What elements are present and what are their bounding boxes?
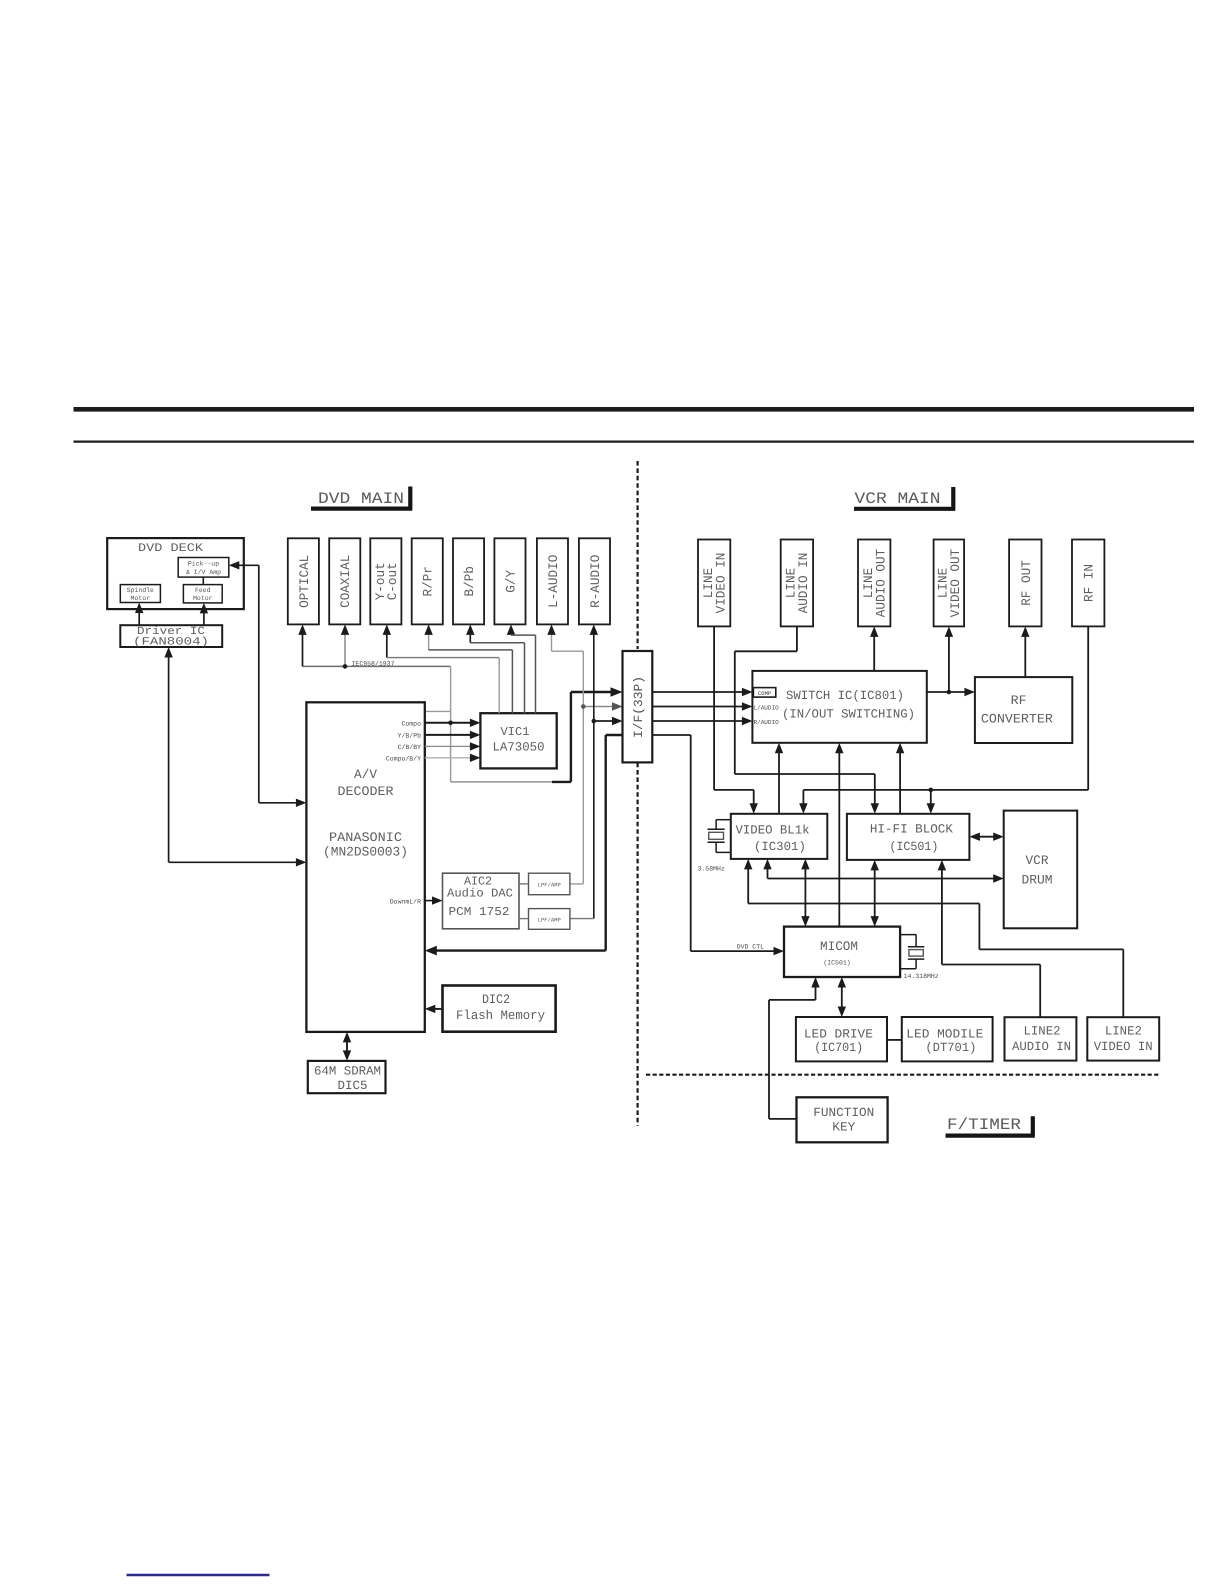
svg-text:(FAN8004): (FAN8004)	[133, 637, 209, 649]
dashed separator vertical (DVD/VCR boundary)	[636, 461, 638, 649]
wire VIC1 to G/Y connector	[510, 628, 512, 635]
block VIDEO BL1k (IC301)	[731, 814, 828, 859]
wire Driver IC to Spindle Motor	[138, 606, 140, 625]
svg-text:AUDIO IN: AUDIO IN	[796, 553, 811, 614]
wire I/F(33P) to decoder (audio return)	[606, 734, 623, 736]
svg-text:Motor: Motor	[131, 595, 151, 602]
wire I/F pin4 DVD CTL to MICOM	[652, 734, 690, 736]
svg-text:R/Pr: R/Pr	[421, 566, 436, 596]
svg-text:COAXIAL: COAXIAL	[338, 555, 353, 608]
svg-text:(MN2DS0003): (MN2DS0003)	[323, 845, 408, 860]
block RF CONVERTER	[975, 677, 1072, 743]
wire I/F pin3 to SWITCH IC R/AUDIO input	[652, 720, 749, 722]
horizontal rule thick (page header)	[74, 407, 1195, 412]
connector COAXIAL	[329, 538, 360, 624]
svg-text:AUDIO OUT: AUDIO OUT	[873, 549, 888, 618]
connector RF IN	[1072, 540, 1104, 627]
connector R-AUDIO	[579, 538, 610, 624]
wire Pick-up to Feed Motor	[202, 577, 204, 585]
wire decoder Y/B/Pb to VIC1	[425, 734, 477, 736]
connector Y-out C-out	[370, 538, 401, 624]
wire HI-FI BLOCK to LINE2 AUDIO IN	[941, 863, 943, 964]
svg-text:VCR: VCR	[1026, 853, 1049, 868]
svg-text:MICOM: MICOM	[820, 939, 858, 954]
wire VIC1 to R/Pr connector	[428, 628, 430, 650]
svg-text:LED DRIVE: LED DRIVE	[804, 1028, 873, 1042]
svg-text:IEC958/1937: IEC958/1937	[352, 661, 395, 668]
block I/F(33P) interface connector	[623, 651, 653, 762]
junction dot video out branch	[947, 690, 952, 695]
connector LINE VIDEO IN	[698, 540, 730, 627]
wire HI-FI BLOCK to MICOM (bidirectional)	[874, 863, 876, 923]
connector LINE AUDIO OUT	[858, 540, 890, 627]
svg-text:LA73050: LA73050	[493, 741, 545, 755]
wire branch to LINE VIDEO OUT	[948, 630, 950, 692]
svg-text:LPF/AMP: LPF/AMP	[538, 917, 561, 924]
wire L-AUDIO net (LPF/AMP 1 to connector and I/F)	[551, 628, 553, 651]
svg-text:DECODER: DECODER	[338, 784, 394, 799]
block SWITCH IC(IC801) IN/OUT SWITCHING	[752, 671, 926, 743]
svg-text:RF OUT: RF OUT	[1019, 560, 1034, 606]
block LED MODILE (DT701)	[902, 1017, 993, 1061]
svg-text:(IC501): (IC501)	[889, 840, 938, 854]
wire LINE AUDIO IN to HI-FI BLOCK	[796, 626, 798, 651]
wire RF CONVERTER to RF OUT	[1024, 630, 1026, 677]
connector LINE AUDIO IN	[781, 540, 813, 627]
wire VIC1 to Y-out/C-out connector	[386, 628, 388, 658]
block LINE2 VIDEO IN	[1087, 1017, 1159, 1060]
svg-text:CONVERTER: CONVERTER	[981, 712, 1053, 727]
svg-text:LED MODILE: LED MODILE	[906, 1028, 983, 1042]
svg-text:14.318MHz: 14.318MHz	[904, 973, 939, 980]
svg-text:B/Pb: B/Pb	[462, 566, 477, 596]
wire SWITCH IC / MICOM vertical	[838, 746, 840, 926]
svg-text:PCM 1752: PCM 1752	[449, 905, 510, 919]
svg-text:Motor: Motor	[193, 595, 213, 602]
block VIC1 LA73050	[480, 713, 556, 768]
wire HI-FI BLOCK to VCR DRUM (bidirectional)	[973, 836, 1000, 838]
svg-text:F/TIMER: F/TIMER	[947, 1116, 1021, 1134]
svg-text:SWITCH IC(IC801): SWITCH IC(IC801)	[786, 689, 904, 703]
connector R/Pr	[412, 538, 443, 624]
svg-text:LPF/AMP: LPF/AMP	[538, 881, 561, 888]
wire VIC1 to B/Pb connector	[469, 628, 471, 643]
block AIC2 Audio DAC PCM 1752	[443, 873, 520, 929]
svg-text:C/B/BY: C/B/BY	[398, 744, 422, 751]
junction dot L-AUDIO at I/F pin2	[581, 704, 586, 709]
svg-text:LINE2: LINE2	[1105, 1025, 1142, 1039]
block Driver IC (FAN8004)	[120, 625, 222, 647]
wire IEC net vertical + decoder stub	[450, 666, 452, 782]
svg-text:Pick--up: Pick--up	[188, 561, 219, 568]
svg-text:(DT701): (DT701)	[925, 1041, 976, 1055]
svg-text:VIDEO IN: VIDEO IN	[713, 553, 728, 614]
svg-text:HI-FI BLOCK: HI-FI BLOCK	[870, 823, 953, 837]
block Spindle Motor	[120, 585, 160, 603]
svg-text:I/F(33P): I/F(33P)	[632, 676, 646, 738]
block 64M SDRAM DIC5	[308, 1061, 386, 1093]
svg-text:OPTICAL: OPTICAL	[297, 555, 312, 608]
block LED DRIVE (IC701)	[796, 1017, 887, 1061]
svg-text:Compo/B/Y: Compo/B/Y	[386, 755, 421, 762]
svg-text:3.58MHz: 3.58MHz	[698, 866, 725, 873]
wire decoder Compo/B/Y to VIC1	[425, 757, 477, 759]
svg-text:L-AUDIO: L-AUDIO	[546, 555, 561, 608]
block A/V DECODER PANASONIC (MN2DS0003)	[306, 702, 424, 1032]
svg-text:R/AUDIO: R/AUDIO	[754, 719, 780, 726]
wire SWITCH IC to RF CONVERTER	[927, 691, 972, 693]
connector L-AUDIO	[537, 538, 568, 624]
svg-text:VIDEO IN: VIDEO IN	[1094, 1040, 1153, 1054]
junction dot R-AUDIO at I/F pin3	[592, 719, 597, 724]
svg-text:L/AUDIO: L/AUDIO	[754, 704, 780, 711]
svg-text:DownmL/R: DownmL/R	[390, 898, 421, 905]
svg-text:DIC2: DIC2	[482, 992, 510, 1007]
wire Driver IC to Feed Motor	[203, 606, 205, 625]
svg-text:DIC5: DIC5	[338, 1079, 368, 1093]
wire decoder Compo to VIC1	[425, 722, 477, 724]
block DVD DECK	[107, 538, 244, 609]
svg-text:(IN/OUT SWITCHING): (IN/OUT SWITCHING)	[782, 708, 915, 722]
wire VIDEO BL1k to VCR DRUM	[767, 862, 769, 878]
wire IEC net bottom run to I/F pin1	[451, 781, 554, 783]
connector B/Pb	[453, 538, 484, 624]
wire A/V decoder to Driver IC	[168, 651, 170, 863]
svg-text:PANASONIC: PANASONIC	[329, 830, 402, 845]
crystal X301 3.58MHz	[716, 819, 731, 821]
block LPF/AMP 1	[529, 873, 570, 895]
svg-text:RF IN: RF IN	[1082, 564, 1097, 602]
svg-text:Feed: Feed	[195, 587, 211, 594]
block FUNCTION KEY	[797, 1097, 888, 1142]
wire I/F pin2 to SWITCH IC L/AUDIO input	[652, 706, 749, 708]
crystal X501 14.318MHz	[900, 934, 916, 936]
junction dot IEC net at COAXIAL	[343, 664, 348, 669]
svg-text:& I/V Amp: & I/V Amp	[186, 569, 221, 576]
wire VIDEO BL1k to LINE2 VIDEO IN	[747, 862, 749, 903]
pin label COMP (inverted box)	[753, 688, 775, 698]
svg-text:VIC1: VIC1	[501, 725, 530, 739]
svg-text:C-out: C-out	[385, 562, 400, 600]
wire HI-FI BLOCK to SWITCH IC	[899, 746, 901, 814]
svg-text:Compo: Compo	[401, 720, 421, 727]
wire I/F pin1 to SWITCH IC COMP input	[652, 691, 749, 693]
svg-text:R-AUDIO: R-AUDIO	[588, 555, 603, 608]
svg-text:DVD CTL: DVD CTL	[737, 944, 764, 951]
svg-text:VCR MAIN: VCR MAIN	[855, 490, 941, 508]
wire decoder to 64M SDRAM (bidirectional)	[346, 1035, 348, 1057]
connector OPTICAL	[288, 538, 319, 624]
block LPF/AMP 2	[529, 909, 570, 930]
connector LINE VIDEO OUT	[934, 540, 965, 627]
svg-text:LINE2: LINE2	[1024, 1025, 1061, 1039]
svg-text:(IC701): (IC701)	[814, 1041, 863, 1055]
block HI-FI BLOCK (IC501)	[847, 814, 970, 860]
wire LED DRIVE to LED MODILE	[887, 1039, 902, 1041]
svg-text:(IC301): (IC301)	[754, 840, 806, 854]
svg-text:AUDIO IN: AUDIO IN	[1012, 1040, 1071, 1054]
wire A/V decoder to Pick-up	[258, 565, 260, 803]
junction dot Compo line	[448, 721, 453, 726]
connector G/Y	[494, 538, 525, 624]
block MICOM (IC501)	[784, 927, 900, 977]
wire MICOM to LED DRIVE (bidirectional)	[841, 981, 843, 1014]
junction dot RF IN branch	[929, 788, 934, 793]
svg-text:A/V: A/V	[354, 767, 377, 782]
svg-text:(IC501): (IC501)	[823, 960, 850, 967]
svg-text:64M SDRAM: 64M SDRAM	[314, 1065, 381, 1079]
wire IEC958/1937 digital audio net	[303, 665, 451, 667]
block Pick-up & I/V Amp	[178, 558, 229, 578]
svg-text:Audio DAC: Audio DAC	[447, 887, 513, 901]
block DIC2 Flash Memory	[443, 986, 556, 1032]
svg-text:FUNCTION: FUNCTION	[813, 1106, 874, 1120]
horizontal rule thin	[74, 440, 1195, 442]
wire decoder DownmL/R to AIC2	[425, 900, 439, 902]
svg-text:VIDEO BL1k: VIDEO BL1k	[736, 824, 810, 838]
wire DIC2 to decoder	[428, 1008, 442, 1010]
wire RF IN to VIDEO BL1k and HI-FI BLOCK	[1087, 626, 1089, 790]
svg-text:COMP: COMP	[758, 690, 771, 697]
wire SWITCH IC to LINE AUDIO OUT	[873, 630, 875, 671]
svg-text:Y/B/Pb: Y/B/Pb	[398, 732, 422, 739]
wire decoder C/B/BY to VIC1	[425, 745, 477, 747]
svg-text:Spindle: Spindle	[127, 587, 154, 594]
wire R-AUDIO net (LPF/AMP 2 to connector and I/F)	[593, 628, 595, 919]
connector RF OUT	[1009, 540, 1041, 627]
wire AIC2 to LPF/AMP 2	[519, 918, 529, 920]
wire MICOM to FUNCTION KEY	[815, 981, 817, 1000]
block LINE2 AUDIO IN	[1005, 1017, 1077, 1060]
svg-text:RF: RF	[1011, 693, 1027, 708]
svg-text:DVD MAIN: DVD MAIN	[318, 490, 404, 508]
wire VIDEO BL1k to SWITCH IC	[778, 746, 780, 814]
block VCR DRUM	[1004, 811, 1077, 929]
svg-text:DVD DECK: DVD DECK	[138, 542, 203, 555]
blue underline at page bottom	[127, 1574, 270, 1577]
wire AIC2 to LPF/AMP 1	[519, 883, 529, 885]
svg-text:VIDEO OUT: VIDEO OUT	[948, 549, 963, 618]
svg-text:G/Y: G/Y	[503, 570, 518, 593]
wire LINE VIDEO IN to VIDEO BL1k	[713, 626, 715, 790]
svg-text:DRUM: DRUM	[1022, 873, 1053, 888]
svg-text:KEY: KEY	[832, 1121, 855, 1135]
svg-text:Flash Memory: Flash Memory	[456, 1008, 545, 1023]
block Feed Motor	[183, 585, 222, 603]
dashed separator horizontal (F/TIMER boundary)	[646, 1074, 1161, 1076]
wire VIDEO BL1k to MICOM (bidirectional)	[804, 862, 806, 923]
